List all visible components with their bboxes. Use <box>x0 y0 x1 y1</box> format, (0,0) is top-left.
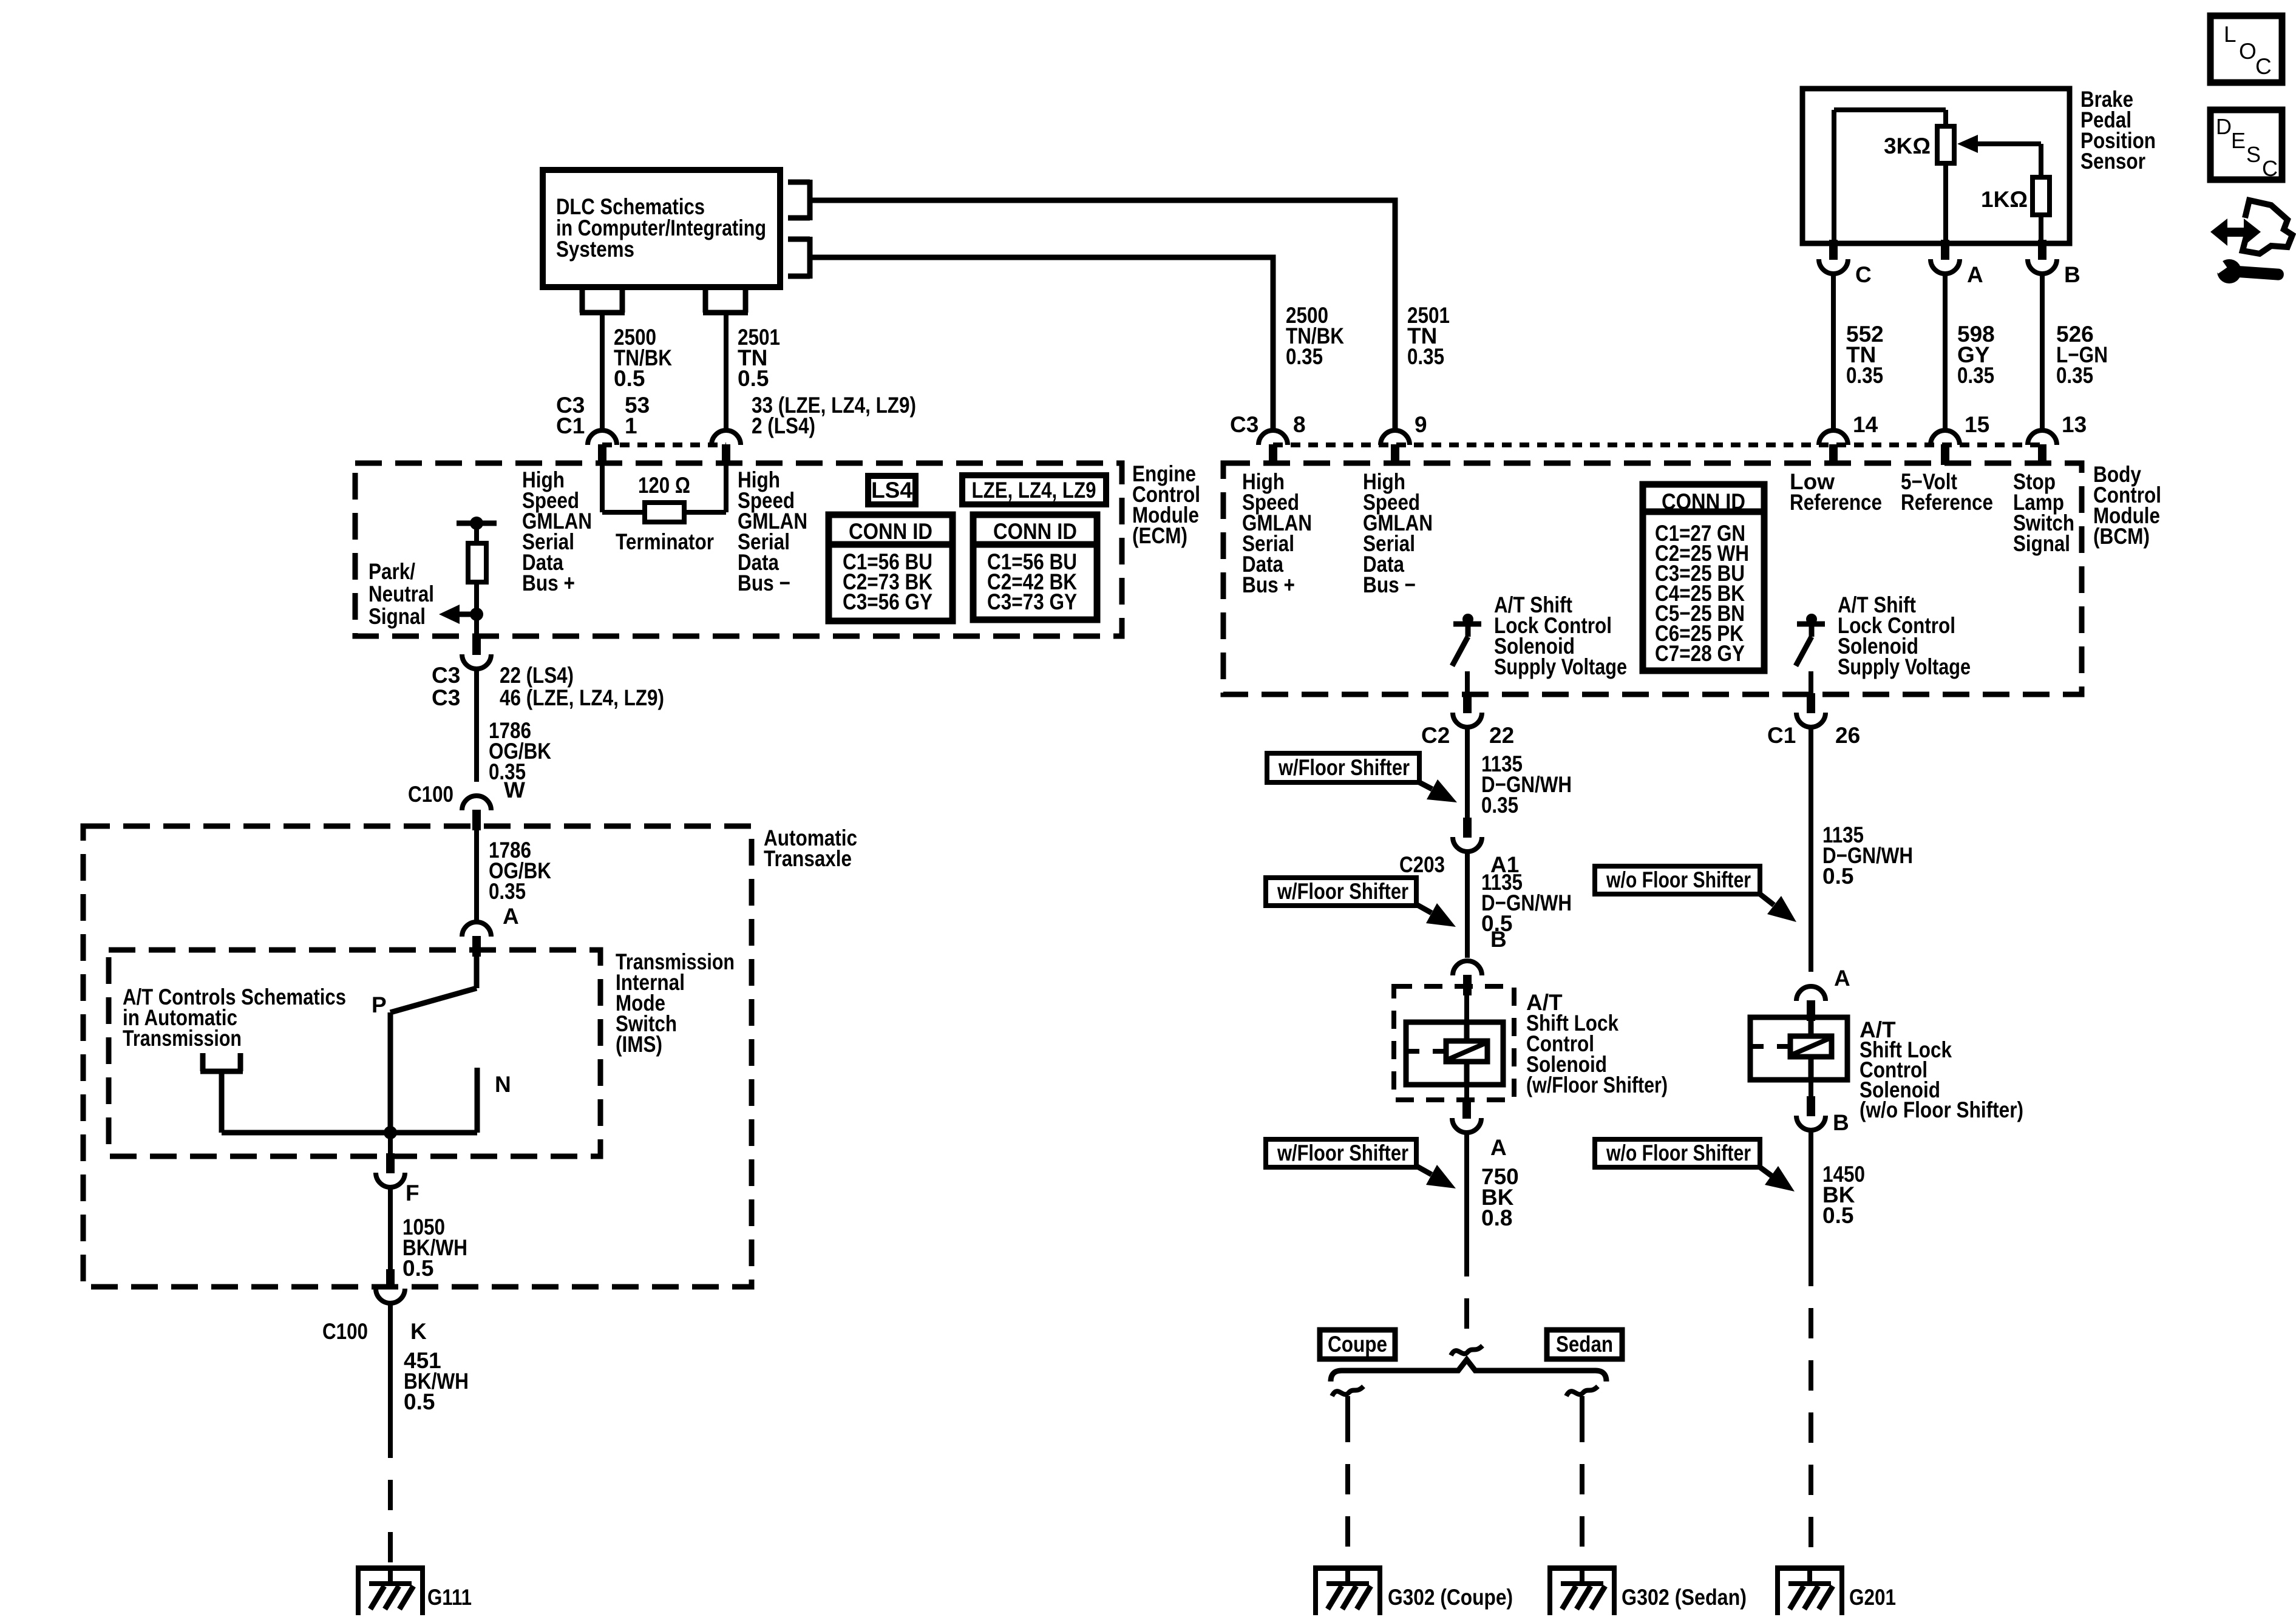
svg-text:0.8: 0.8 <box>1481 1205 1512 1230</box>
BCM connector dotted line <box>1273 442 2042 447</box>
coupe ground stub <box>1345 1396 1350 1412</box>
svg-text:W: W <box>504 778 525 802</box>
connector C3/C1 pin 53/1 at ECM <box>588 430 617 465</box>
svg-text:Reference: Reference <box>1901 490 1993 515</box>
wire A into switch <box>474 957 480 988</box>
svg-text:w/Floor Shifter: w/Floor Shifter <box>1277 1141 1408 1165</box>
BPP pin C connector <box>1819 240 1848 274</box>
BCM dashed module box <box>1223 463 2082 694</box>
wire resistor to junction <box>474 582 479 614</box>
LOC letters <box>2224 22 2272 79</box>
CONN ID table BCM <box>1643 484 1764 671</box>
svg-text:B: B <box>1833 1110 1849 1135</box>
svg-text:A: A <box>1834 966 1850 991</box>
svg-text:C: C <box>1855 262 1872 287</box>
connector pin 8 at BCM <box>1258 430 1288 465</box>
wire break tilde center <box>1451 1346 1483 1355</box>
svg-text:O: O <box>2239 39 2257 64</box>
wire 1050 BK/WH <box>388 1187 393 1269</box>
svg-text:0.35: 0.35 <box>1846 363 1883 388</box>
svg-text:26: 26 <box>1835 723 1860 748</box>
CONN ID table LS4 <box>829 515 953 621</box>
svg-text:C3: C3 <box>1230 412 1258 437</box>
svg-text:Transaxle: Transaxle <box>764 846 852 871</box>
park neutral signal arrow <box>439 605 477 624</box>
svg-text:0.5: 0.5 <box>738 366 769 391</box>
wire N contact stub <box>475 1068 480 1133</box>
svg-text:9: 9 <box>1415 412 1427 437</box>
connector C100 K <box>376 1269 405 1303</box>
connector pin 9 at BCM <box>1381 430 1410 465</box>
svg-text:C: C <box>2262 156 2278 181</box>
svg-text:(BCM): (BCM) <box>2093 524 2150 549</box>
svg-text:0.5: 0.5 <box>1822 1203 1853 1228</box>
DESC letters <box>2216 114 2278 181</box>
svg-text:0.35: 0.35 <box>1407 344 1444 369</box>
svg-text:C7=28 GY: C7=28 GY <box>1655 641 1745 666</box>
svg-text:CONN ID: CONN ID <box>993 519 1077 544</box>
connector pin 33/2 at ECM <box>712 430 741 465</box>
BPP pin B connector <box>2028 240 2057 274</box>
svg-text:Terminator: Terminator <box>616 529 714 554</box>
wire 3K to box bottom <box>1943 163 1948 243</box>
svg-text:(IMS): (IMS) <box>616 1032 662 1057</box>
svg-text:Transmission: Transmission <box>123 1026 242 1051</box>
svg-text:w/Floor Shifter: w/Floor Shifter <box>1277 879 1408 904</box>
svg-text:46 (LZE, LZ4, LZ9): 46 (LZE, LZ4, LZ9) <box>500 685 664 710</box>
w/Floor Shifter box 2 <box>1266 878 1416 906</box>
svg-text:Bus +: Bus + <box>522 571 575 595</box>
resistor 3K potentiometer <box>1937 126 1954 163</box>
wire 598 GY <box>1943 274 1948 431</box>
svg-text:N: N <box>495 1072 511 1097</box>
svg-text:Bus −: Bus − <box>1363 572 1416 597</box>
svg-text:A: A <box>1967 262 1983 287</box>
svg-text:C: C <box>2255 54 2272 79</box>
svg-text:w/o Floor Shifter: w/o Floor Shifter <box>1606 867 1751 892</box>
connector pin 13 at BCM <box>2028 430 2057 465</box>
svg-text:Supply Voltage: Supply Voltage <box>1838 654 1971 679</box>
connector pin 15 at BCM <box>1931 430 1960 465</box>
wire break tilde coupe <box>1332 1386 1364 1396</box>
svg-text:B: B <box>2064 262 2080 287</box>
switch blade to P <box>390 988 477 1012</box>
wire P contact <box>388 1012 393 1133</box>
arrow to wire 3 <box>1416 1165 1456 1188</box>
LOC legend box <box>2210 16 2282 83</box>
sedan ground stub <box>1580 1396 1584 1412</box>
svg-text:0.35: 0.35 <box>1286 344 1323 369</box>
Coupe box <box>1320 1330 1395 1359</box>
DLC bottom right pigtail bracket <box>703 287 748 313</box>
DESC legend box <box>2210 110 2282 180</box>
A/T shift lock solenoid driver switch right <box>1796 614 1825 694</box>
arrow to right wire 2 <box>1760 1166 1795 1192</box>
wire junction to ECM edge <box>474 614 479 635</box>
service icon double arrow <box>2210 219 2261 246</box>
svg-text:C100: C100 <box>322 1319 368 1344</box>
DLC right lower port bracket <box>788 237 810 279</box>
svg-text:13: 13 <box>2062 412 2087 437</box>
Brake Pedal Position Sensor box <box>1802 89 2070 243</box>
svg-text:8: 8 <box>1293 412 1306 437</box>
svg-text:LZE, LZ4, LZ9: LZE, LZ4, LZ9 <box>972 478 1096 503</box>
A/T controls bracket <box>200 1053 243 1071</box>
sedan dashed wire <box>1580 1412 1584 1561</box>
svg-text:0.5: 0.5 <box>614 366 645 391</box>
svg-text:(w/o Floor Shifter): (w/o Floor Shifter) <box>1860 1097 2023 1122</box>
svg-text:Systems: Systems <box>556 237 634 262</box>
wire 1450 dashed <box>1809 1256 1813 1561</box>
svg-text:C3: C3 <box>432 663 460 688</box>
wire tee to resistor <box>474 523 479 543</box>
service icon wrench <box>2213 259 2284 283</box>
connector A into IMS <box>462 922 491 957</box>
junction dot IMS <box>384 1126 397 1139</box>
svg-text:B: B <box>1490 927 1507 952</box>
wire 750 dashed <box>1464 1246 1469 1343</box>
svg-text:120 Ω: 120 Ω <box>638 473 690 498</box>
svg-text:Bus −: Bus − <box>738 571 790 595</box>
connector C1 26 below BCM <box>1796 693 1826 727</box>
svg-text:Sedan: Sedan <box>1556 1332 1613 1357</box>
svg-text:1KΩ: 1KΩ <box>1981 187 2028 212</box>
w/Floor Shifter box 1 <box>1267 753 1419 782</box>
ground G201 <box>1775 1565 1844 1615</box>
svg-text:C3=73 GY: C3=73 GY <box>987 589 1077 614</box>
wire B pin to solenoid <box>1464 995 1469 1022</box>
connector A below solenoid <box>1452 1099 1481 1133</box>
svg-text:0.5: 0.5 <box>404 1389 435 1414</box>
potentiometer wiper arrow <box>1957 135 2041 153</box>
solenoid dashed box (w/Floor) <box>1394 986 1514 1100</box>
svg-text:G111: G111 <box>427 1585 472 1610</box>
svg-text:w/o Floor Shifter: w/o Floor Shifter <box>1606 1141 1751 1165</box>
wire break tilde sedan <box>1566 1386 1598 1396</box>
IMS common bus wire <box>222 1130 477 1136</box>
svg-text:G302 (Coupe): G302 (Coupe) <box>1388 1585 1513 1610</box>
ground G302 coupe <box>1313 1565 1382 1615</box>
connector F below IMS <box>376 1153 405 1187</box>
A/T shift lock control solenoid (w/Floor) <box>1406 1022 1503 1085</box>
junction dot park/neutral <box>470 608 483 621</box>
coupe/sedan brace <box>1331 1360 1606 1381</box>
wire 1450 BK solid <box>1809 1130 1813 1256</box>
svg-text:Bus +: Bus + <box>1242 572 1295 597</box>
arrow to right wire 1 <box>1760 894 1796 922</box>
ground G111 <box>356 1565 425 1615</box>
svg-text:15: 15 <box>1965 412 1989 437</box>
svg-text:Signal: Signal <box>2013 531 2070 556</box>
svg-text:S: S <box>2246 142 2261 167</box>
svg-text:Coupe: Coupe <box>1328 1332 1387 1357</box>
connector C2 22 below BCM <box>1453 693 1482 727</box>
svg-text:E: E <box>2231 128 2246 153</box>
wire 1786 OG/BK lower <box>474 830 479 922</box>
LZE LZ4 LZ9 box <box>962 475 1106 504</box>
Automatic Transaxle dashed box <box>83 826 752 1287</box>
A/T shift lock control solenoid (w/o Floor) <box>1750 1017 1847 1080</box>
DLC right upper port bracket <box>788 180 810 220</box>
svg-text:C3=56 GY: C3=56 GY <box>843 589 932 614</box>
DLC bottom left pigtail bracket <box>580 287 625 313</box>
svg-text:0.35: 0.35 <box>1481 793 1518 818</box>
connector C100 W <box>462 796 491 830</box>
svg-text:(ECM): (ECM) <box>1132 523 1187 548</box>
svg-text:Supply Voltage: Supply Voltage <box>1494 654 1627 679</box>
svg-text:K: K <box>410 1319 427 1344</box>
connector A into right solenoid <box>1796 986 1826 1021</box>
svg-text:0.5: 0.5 <box>402 1256 433 1281</box>
w/o Floor Shifter box 1 <box>1595 866 1760 894</box>
svg-text:0.35: 0.35 <box>1957 363 1994 388</box>
wire 2501 TN 0.5 to ECM <box>724 313 729 431</box>
CONN ID table LZE <box>973 515 1097 620</box>
wire C203 to solenoid <box>1465 852 1470 958</box>
svg-text:C3: C3 <box>432 685 460 710</box>
svg-text:Reference: Reference <box>1790 490 1882 515</box>
wire 451 solid <box>388 1303 393 1428</box>
svg-text:Neutral: Neutral <box>369 581 434 606</box>
DLC Schematics component box <box>543 170 780 287</box>
svg-text:C1: C1 <box>556 413 585 438</box>
park neutral top tee <box>457 521 497 526</box>
svg-text:2 (LS4): 2 (LS4) <box>752 413 815 438</box>
svg-text:C100: C100 <box>408 782 453 807</box>
svg-text:G201: G201 <box>1849 1585 1896 1610</box>
connector C203 A1 <box>1453 818 1482 852</box>
A/T shift lock solenoid driver switch left <box>1452 614 1481 694</box>
svg-text:C2: C2 <box>1421 723 1450 748</box>
svg-text:1: 1 <box>625 413 637 438</box>
ground G302 sedan <box>1547 1565 1617 1615</box>
wire 552 TN <box>1831 274 1836 431</box>
IMS dashed box <box>109 950 600 1156</box>
svg-text:w/Floor Shifter: w/Floor Shifter <box>1278 755 1410 780</box>
LS4 box <box>868 476 915 504</box>
BPP internal wire loop <box>1834 110 1946 243</box>
wire 1786 OG/BK upper <box>474 669 479 782</box>
wire to C203 <box>1465 727 1470 818</box>
connector B below right solenoid <box>1796 1096 1826 1130</box>
wire 750 BK solid <box>1464 1133 1469 1246</box>
w/o Floor Shifter box 2 <box>1595 1139 1760 1167</box>
svg-text:0.35: 0.35 <box>489 879 526 904</box>
wire wiper down <box>2039 144 2043 177</box>
svg-text:14: 14 <box>1853 412 1878 437</box>
svg-text:A: A <box>1490 1135 1507 1160</box>
wire 2500 TN/BK from DLC to BCM pin 8 <box>810 257 1273 431</box>
svg-text:CONN ID: CONN ID <box>849 519 932 544</box>
wire 1K to box bottom <box>2039 215 2043 243</box>
arrow to wire 2 <box>1416 903 1456 927</box>
junction dot on tee <box>470 517 483 530</box>
svg-text:C1: C1 <box>1767 723 1796 748</box>
w/Floor Shifter box 3 <box>1266 1139 1416 1167</box>
svg-text:CONN ID: CONN ID <box>1662 489 1745 514</box>
svg-text:Signal: Signal <box>369 604 426 629</box>
svg-text:LS4: LS4 <box>871 478 912 503</box>
svg-text:0.5: 0.5 <box>1822 864 1853 889</box>
resistor 120 ohm terminator <box>645 503 684 522</box>
resistor park/neutral <box>468 543 486 582</box>
ECM connector dotted line <box>602 442 726 447</box>
svg-text:L: L <box>2224 22 2237 47</box>
BPP pin A connector <box>1931 240 1960 274</box>
svg-text:F: F <box>406 1181 419 1205</box>
svg-text:Sensor: Sensor <box>2080 149 2145 174</box>
terminator loop wires <box>602 465 726 512</box>
svg-text:(w/Floor Shifter): (w/Floor Shifter) <box>1526 1073 1668 1097</box>
ECM dashed module box <box>355 463 1122 636</box>
wire IMS to F <box>388 1133 393 1153</box>
svg-text:3KΩ: 3KΩ <box>1884 134 1931 158</box>
wire right solenoid to pin B <box>1809 1080 1813 1096</box>
wire 2501 TN from DLC to BCM pin 9 <box>810 200 1395 431</box>
wire bracket to bus <box>219 1071 225 1133</box>
connector pin 14 at BCM <box>1819 430 1848 465</box>
arrow to wire 1 <box>1419 779 1457 802</box>
wire 1135 right <box>1809 727 1813 972</box>
wire 2500 TN/BK 0.5 to ECM <box>600 313 605 431</box>
connector B into solenoid <box>1453 961 1482 995</box>
wire solenoid to pin A <box>1464 1085 1469 1100</box>
coupe dashed wire <box>1345 1412 1350 1561</box>
wire 526 L-GN <box>2040 274 2045 431</box>
svg-text:0.35: 0.35 <box>2056 363 2093 388</box>
Sedan box <box>1547 1330 1622 1359</box>
connector C3 pin 22/46 below ECM <box>462 635 491 669</box>
svg-text:A: A <box>503 904 519 929</box>
service icon outline shape <box>2243 200 2292 254</box>
svg-text:Park/: Park/ <box>369 559 415 584</box>
svg-text:P: P <box>372 992 387 1017</box>
svg-text:22: 22 <box>1489 723 1514 748</box>
svg-text:G302 (Sedan): G302 (Sedan) <box>1622 1585 1747 1610</box>
svg-text:D: D <box>2216 114 2232 139</box>
svg-text:C203: C203 <box>1399 852 1445 877</box>
wire 451 dashed to ground <box>388 1428 393 1564</box>
resistor 1K <box>2033 177 2050 215</box>
svg-text:22 (LS4): 22 (LS4) <box>500 663 574 688</box>
